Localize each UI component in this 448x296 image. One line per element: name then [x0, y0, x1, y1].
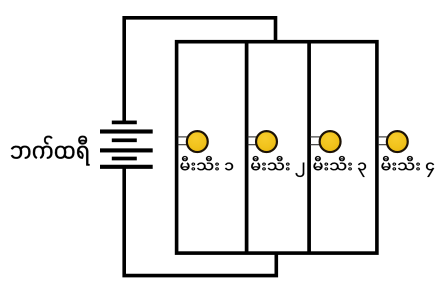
battery B1 label: ဘက်ထရီ — [11, 136, 90, 166]
lamp L3 leads — [310, 137, 322, 145]
value label lamp L4: မီးသီး 4 — [381, 156, 434, 177]
wire frame of parallel bank: top rail, bottom rail, branch wire 1 (left), branch wire 4 (right) — [177, 42, 377, 253]
wire W2: bottom rail node B down, across bottom, up to battery - terminal — [124, 166, 276, 276]
branch wire 2 — [245, 42, 249, 253]
branch wire 3 — [307, 42, 311, 253]
value label lamp L2: မီးသီး 2 — [251, 156, 304, 177]
lamp L2 leads — [248, 137, 258, 145]
value label lamp L3: မီးသီး 3 — [313, 156, 366, 177]
lamp L1 leads — [178, 137, 189, 145]
value label lamp L1: မီးသီး 1 — [180, 156, 233, 170]
lamp L3 bulb — [320, 131, 341, 152]
lamp L4 leads — [378, 137, 389, 145]
battery B1 (3 cells: alternating short/long plates) — [100, 121, 153, 169]
lamp L1 bulb — [187, 131, 208, 152]
lamp L4 bulb — [387, 131, 408, 152]
wire W1: battery + terminal up, across top, down to top rail node A — [124, 18, 275, 122]
lamp L2 bulb — [256, 131, 277, 152]
